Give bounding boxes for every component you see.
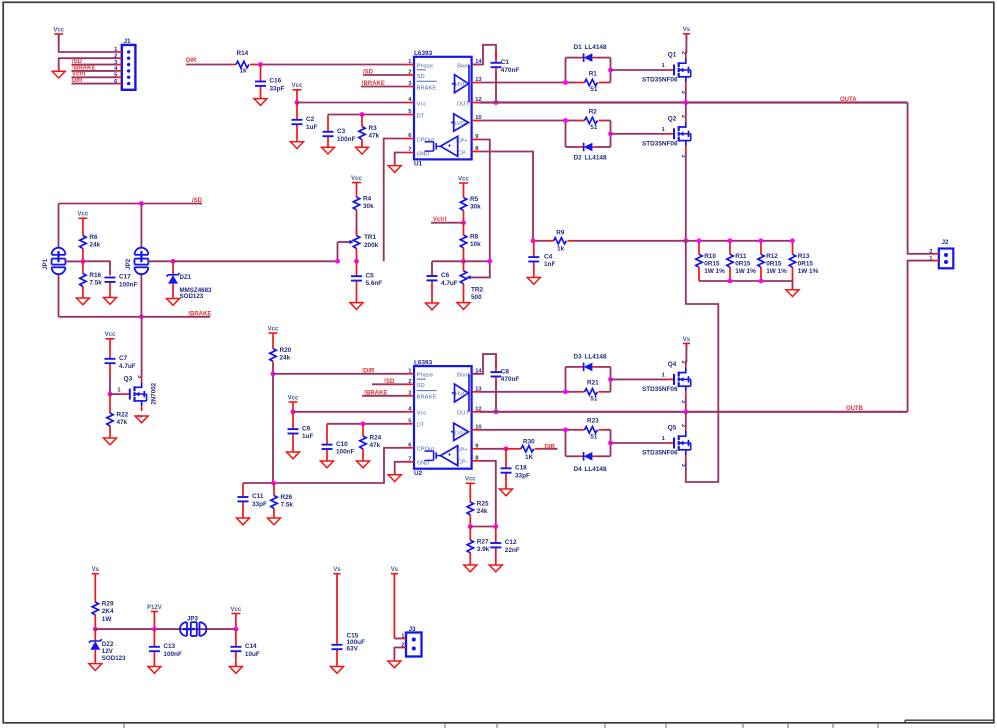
junction top rail xyxy=(728,238,733,243)
resistor R16 xyxy=(80,261,103,298)
svg-text:D2: D2 xyxy=(574,155,583,162)
wire R14 to U1 pin1 xyxy=(256,64,406,66)
ground U1 xyxy=(388,166,401,173)
svg-text:L6393: L6393 xyxy=(414,50,433,57)
wire sense bottom rail xyxy=(699,280,793,282)
wire D3 loop left xyxy=(565,367,567,392)
svg-text:Q3: Q3 xyxy=(124,376,133,383)
ground TR2 xyxy=(457,303,470,310)
ground C6 xyxy=(426,303,439,310)
jumper JP2 xyxy=(125,248,148,275)
junction osc node xyxy=(271,481,276,486)
trimmer TR2 xyxy=(460,261,483,302)
svg-text:TR1: TR1 xyxy=(364,234,377,241)
ground C12 xyxy=(489,565,502,572)
transistor Q4 xyxy=(642,360,691,404)
zener DZ2 xyxy=(89,629,126,664)
svg-text:DIR: DIR xyxy=(545,444,556,450)
capacitor C8 xyxy=(491,360,520,388)
wire 12V rail xyxy=(95,628,236,630)
diode D2 xyxy=(579,143,597,152)
diode D3 xyxy=(574,353,607,371)
wire to Q5 gate xyxy=(611,442,667,444)
wire from D3 xyxy=(597,366,611,368)
resistor R8 xyxy=(460,223,481,262)
wire Q3 drain to !BRAKE rail xyxy=(141,317,143,377)
svg-text:100nF: 100nF xyxy=(337,136,356,143)
svg-text:C9: C9 xyxy=(302,425,311,432)
ground J3 xyxy=(388,661,401,668)
ground J1 pin2 xyxy=(52,71,65,78)
resistor R29 xyxy=(92,601,114,630)
wire U2 LVG to R23/D4 xyxy=(480,429,566,431)
svg-text:R13: R13 xyxy=(798,253,810,260)
svg-text:30k: 30k xyxy=(470,204,481,211)
power Vcc xyxy=(458,176,469,197)
svg-text:2: 2 xyxy=(401,643,404,649)
svg-text:C18: C18 xyxy=(515,465,527,472)
svg-text:3.9k: 3.9k xyxy=(477,546,490,553)
power Vcc xyxy=(351,176,362,197)
svg-text:R1: R1 xyxy=(589,70,598,77)
resistor R24 xyxy=(360,424,382,461)
wire Vcc to J1 pin1 xyxy=(59,34,117,52)
wire from R21 xyxy=(606,391,611,393)
transistor Q3 xyxy=(117,375,157,418)
junction R3/DT xyxy=(360,112,365,117)
wire from D1 xyxy=(597,57,611,59)
power Vcc xyxy=(53,27,64,42)
wire to C17 xyxy=(83,261,110,275)
ground C17 xyxy=(104,298,117,305)
svg-text:2: 2 xyxy=(114,54,117,60)
junction Phase tap xyxy=(271,371,276,376)
ground DZ1 xyxy=(167,299,180,306)
wire Vs to Q4 drain xyxy=(685,343,687,362)
wire D4 loop left xyxy=(565,430,567,457)
resistor R10 0R15 xyxy=(696,241,725,281)
wire to D2 xyxy=(566,146,580,148)
wire to Q3 gate xyxy=(110,393,122,395)
wire JP2 bottom xyxy=(140,274,142,317)
capacitor C17 xyxy=(105,274,138,298)
junction DZ1 xyxy=(171,259,176,264)
svg-text:DIR: DIR xyxy=(186,58,197,64)
wire J3 pin2 to ground xyxy=(394,648,400,662)
ground R22 xyxy=(104,438,117,445)
svg-text:Vs: Vs xyxy=(92,567,100,573)
wire TR1 wiper down xyxy=(337,242,339,261)
svg-text:R26: R26 xyxy=(281,494,293,501)
wire Vctrl to J1 pin5 xyxy=(72,76,117,78)
junction OUTA/Q1/Q2 xyxy=(683,100,688,105)
wire DIR to R14 xyxy=(186,64,231,66)
svg-text:R9: R9 xyxy=(556,229,565,236)
svg-text:STD35NF06: STD35NF06 xyxy=(642,140,678,147)
wire Q4 source to OUTB xyxy=(685,396,687,411)
wire U1 LVG to R2/D2 xyxy=(480,120,566,122)
wire U1 Boot to C1 xyxy=(472,45,496,65)
svg-text:200k: 200k xyxy=(364,242,379,249)
svg-text:100nF: 100nF xyxy=(119,282,138,289)
junction Q2 gate xyxy=(608,131,613,136)
svg-text:OUTB: OUTB xyxy=(846,406,864,412)
junction R25/R27 xyxy=(468,524,473,529)
svg-text:2N7002: 2N7002 xyxy=(150,382,157,404)
resistor R2 xyxy=(578,108,606,131)
svg-text:R30: R30 xyxy=(523,439,535,446)
svg-text:C6: C6 xyxy=(441,272,450,279)
svg-text:24k: 24k xyxy=(477,508,488,515)
wire D1 loop right xyxy=(610,58,612,83)
resistor R13 0R15 xyxy=(789,241,818,281)
capacitor C9 xyxy=(288,412,314,452)
junction CP-/C12 xyxy=(493,524,498,529)
svg-text:C17: C17 xyxy=(119,274,131,281)
svg-text:STD35NF06: STD35NF06 xyxy=(642,450,678,457)
wire to D4 xyxy=(566,455,580,457)
resistor R11 0R15 xyxy=(727,241,756,281)
svg-text:51: 51 xyxy=(590,86,598,93)
wire JP1 bottom xyxy=(58,274,60,317)
resistor R22 xyxy=(107,394,129,438)
ground C16 xyxy=(254,99,267,106)
svg-text:R8: R8 xyxy=(470,234,479,241)
svg-text:R16: R16 xyxy=(89,272,101,279)
ground C2 xyxy=(291,142,304,149)
wire U2 HVG to R21/D3 xyxy=(480,391,566,393)
svg-text:DZ2: DZ2 xyxy=(102,641,114,648)
svg-text:2: 2 xyxy=(929,249,932,255)
junction LVG/R23/D4 xyxy=(563,427,568,432)
capacitor C12 xyxy=(490,527,520,566)
svg-text:22nF: 22nF xyxy=(505,547,520,554)
wire to D3 xyxy=(566,366,580,368)
svg-text:J2: J2 xyxy=(942,239,950,246)
power Vcc xyxy=(288,395,299,411)
svg-text:47k: 47k xyxy=(117,419,128,426)
wire timing node to TR1 xyxy=(173,260,338,262)
capacitor C13 xyxy=(149,629,182,666)
svg-text:1W 1%: 1W 1% xyxy=(798,268,819,275)
wire JP2 to DZ1 xyxy=(148,260,173,262)
junction Q1 gate xyxy=(608,68,613,73)
svg-text:C11: C11 xyxy=(252,493,264,500)
ground R24 xyxy=(357,461,370,468)
wire TR2 wiper to CP+ xyxy=(471,261,490,277)
svg-text:R12: R12 xyxy=(766,253,778,260)
capacitor C18 xyxy=(501,449,531,489)
svg-text:C13: C13 xyxy=(163,643,175,650)
ground C13 xyxy=(148,667,161,674)
svg-text:4.7uF: 4.7uF xyxy=(441,280,458,287)
svg-text:Q4: Q4 xyxy=(668,361,677,368)
junction CP+/C18 xyxy=(504,446,509,451)
border tick marks xyxy=(124,724,878,728)
capacitor C2 xyxy=(292,103,318,142)
svg-text:LL4148: LL4148 xyxy=(585,44,607,51)
wire JP2 top xyxy=(140,204,142,249)
junction bottom rail xyxy=(728,279,733,284)
jumper JP1 xyxy=(42,248,65,275)
capacitor C14 xyxy=(230,629,260,666)
wire to R1 xyxy=(566,82,578,84)
ground C18 xyxy=(500,489,513,496)
power Vcc xyxy=(231,607,242,629)
svg-text:JP2: JP2 xyxy=(125,258,132,270)
transistor Q1 xyxy=(642,51,691,95)
svg-text:1uF: 1uF xyxy=(302,433,313,440)
junction top rail xyxy=(697,238,702,243)
svg-text:TR2: TR2 xyxy=(471,287,484,294)
resistor R5 xyxy=(460,196,481,223)
svg-text:Vs: Vs xyxy=(683,337,691,343)
svg-text:7.5k: 7.5k xyxy=(281,502,294,509)
wire R4 to TR1 xyxy=(356,213,358,236)
svg-text:Vs: Vs xyxy=(391,567,399,573)
wire D3 loop right xyxy=(610,367,612,392)
wire C4 to R9 xyxy=(533,240,548,242)
svg-text:R14: R14 xyxy=(237,50,249,57)
wire J1 pin2 to ground xyxy=(59,58,117,71)
svg-text:R20: R20 xyxy=(280,347,292,354)
wire !BRAKE to U2 pin3 xyxy=(362,395,406,397)
svg-text:5.6nF: 5.6nF xyxy=(366,280,383,287)
connector J1 xyxy=(114,38,135,90)
wire OUTB to Q5 drain xyxy=(685,412,687,426)
junction TR1 wiper xyxy=(335,259,340,264)
junction OUTB/Q4/Q5 xyxy=(683,409,688,414)
wire U2 Boot to C8 xyxy=(472,354,496,374)
svg-text:4.7uF: 4.7uF xyxy=(119,363,136,370)
capacitor C3 xyxy=(323,115,356,148)
svg-text:1k: 1k xyxy=(557,245,565,252)
svg-text:33pF: 33pF xyxy=(270,86,285,93)
svg-text:Vcc: Vcc xyxy=(53,27,64,33)
svg-text:D4: D4 xyxy=(574,466,583,473)
wire C8 to OUTB xyxy=(495,381,497,412)
ground R27 xyxy=(464,565,477,572)
wire sense top rail xyxy=(686,240,793,242)
wire U1 CP- jog xyxy=(480,152,533,241)
diode D4 xyxy=(579,452,597,461)
zener DZ1 xyxy=(167,261,213,300)
resistor R12 0R15 xyxy=(758,241,787,281)
svg-text:2K4: 2K4 xyxy=(102,608,114,615)
svg-text:51: 51 xyxy=(590,395,598,402)
svg-text:R10: R10 xyxy=(704,253,716,260)
svg-text:C3: C3 xyxy=(337,128,346,135)
wire R20 to osc node xyxy=(272,364,274,483)
wire !BRAKE to U1 pin3 xyxy=(361,86,406,88)
ground C11 xyxy=(237,518,250,525)
svg-text:Vcc: Vcc xyxy=(231,607,242,613)
svg-text:STD35NF06: STD35NF06 xyxy=(642,386,678,393)
power Vs xyxy=(683,27,691,40)
wire to R2 xyxy=(566,120,578,122)
wire !BRAKE rail xyxy=(59,316,211,318)
junction C8/OUTB xyxy=(494,409,499,414)
svg-text:D1: D1 xyxy=(574,44,583,51)
svg-text:100nF: 100nF xyxy=(163,651,182,658)
wire OUTB rail xyxy=(480,411,908,413)
svg-text:24k: 24k xyxy=(280,355,291,362)
wire from D4 xyxy=(597,455,611,457)
svg-text:1nF: 1nF xyxy=(544,261,555,268)
resistor R6 xyxy=(80,234,101,261)
wire D1 loop left xyxy=(565,58,567,83)
wire to D1 xyxy=(566,57,580,59)
ground C10 xyxy=(321,461,334,468)
capacitor C4 xyxy=(528,241,555,278)
junction HVG/D3/R21 xyxy=(563,389,568,394)
op-amp driver IC U1 L6393 xyxy=(406,50,483,167)
svg-text:1W 1%: 1W 1% xyxy=(704,268,725,275)
svg-text:R5: R5 xyxy=(470,196,479,203)
ground C9 xyxy=(287,452,300,459)
svg-text:C10: C10 xyxy=(336,441,348,448)
ground Q3 source xyxy=(135,416,148,423)
junction Vctrl xyxy=(461,220,466,225)
ground U2 xyxy=(388,475,401,482)
svg-text:R6: R6 xyxy=(89,234,98,241)
svg-text:J3: J3 xyxy=(409,626,417,633)
wire D2 loop right xyxy=(610,121,612,148)
junction TR1 bottom xyxy=(354,259,359,264)
ground C3 xyxy=(322,147,335,154)
power Vcc xyxy=(292,83,303,102)
svg-text:R4: R4 xyxy=(363,196,372,203)
trimmer TR1 xyxy=(349,231,378,262)
svg-text:C12: C12 xyxy=(505,539,517,546)
ground R3 xyxy=(356,147,369,154)
wire JP1 to divider xyxy=(65,260,83,262)
wire OUTA to Q2 drain xyxy=(685,103,687,117)
svg-text:R21: R21 xyxy=(587,380,599,387)
wire from R23 xyxy=(606,429,611,431)
wire TR1 wiper xyxy=(338,241,350,243)
junction CP-/R9/C4 xyxy=(531,238,536,243)
junction R8/TR2/C6 xyxy=(461,259,466,264)
svg-text:Vcc: Vcc xyxy=(465,477,476,483)
svg-text:1K: 1K xyxy=(525,454,534,461)
svg-text:2: 2 xyxy=(680,51,686,54)
wire from R1 xyxy=(606,82,611,84)
wire D4 loop right xyxy=(610,430,612,457)
svg-text:Vcc: Vcc xyxy=(351,176,362,182)
wire U2 CP- jog xyxy=(480,461,496,527)
junction bottom rail xyxy=(759,279,764,284)
svg-text:0R15: 0R15 xyxy=(798,261,814,268)
transistor Q2 xyxy=(642,115,691,159)
resistor R27 xyxy=(467,527,490,566)
svg-text:C2: C2 xyxy=(306,116,315,123)
wire from R2 xyxy=(606,120,611,122)
svg-text:DZ1: DZ1 xyxy=(180,274,192,281)
wire Q5 source to sense node xyxy=(686,241,719,482)
wire OUTA rail xyxy=(480,101,908,103)
svg-text:Q5: Q5 xyxy=(668,425,677,432)
svg-text:1W: 1W xyxy=(102,616,113,623)
power Vcc xyxy=(465,477,476,502)
svg-text:OUTA: OUTA xyxy=(840,97,857,103)
svg-text:12V: 12V xyxy=(102,648,114,655)
wire from D2 xyxy=(597,146,611,148)
transistor Q5 xyxy=(642,424,691,468)
svg-text:470nF: 470nF xyxy=(501,376,520,383)
svg-text:1k: 1k xyxy=(240,68,248,75)
resistor R25 xyxy=(467,501,489,527)
svg-text:R24: R24 xyxy=(370,435,382,442)
ground C4 xyxy=(527,278,540,285)
svg-text:51: 51 xyxy=(590,124,598,131)
svg-text:33pF: 33pF xyxy=(252,501,267,508)
junction top rail xyxy=(790,238,795,243)
power Vs xyxy=(333,567,341,640)
wire C1 to OUT xyxy=(495,72,497,103)
wire Vcc to U2 pin4 xyxy=(293,411,406,413)
resistor R23 xyxy=(578,418,606,441)
svg-text:1W 1%: 1W 1% xyxy=(735,268,756,275)
wire Vctrl xyxy=(431,222,464,224)
svg-text:24k: 24k xyxy=(89,242,100,249)
wire DIR to J1 pin6 xyxy=(72,83,117,85)
junction Vcc/C9 xyxy=(291,409,296,414)
junction Vcc/C2 xyxy=(295,100,300,105)
wire /SD to U1 pin2 xyxy=(363,74,406,76)
junction R24/DT xyxy=(361,421,366,426)
svg-text:Q2: Q2 xyxy=(668,115,677,122)
power Vcc xyxy=(105,332,116,354)
wire to C6 xyxy=(431,261,433,274)
wire C7 to gate node xyxy=(109,375,111,394)
power Vs xyxy=(683,337,691,350)
wire D2 loop left xyxy=(565,121,567,148)
wire to Q1 gate xyxy=(611,69,667,71)
junction sense node xyxy=(683,238,688,243)
svg-text:Vcc: Vcc xyxy=(268,326,279,332)
svg-text:LL4148: LL4148 xyxy=(585,466,607,473)
capacitor C10 xyxy=(322,424,355,461)
svg-text:D3: D3 xyxy=(574,353,583,360)
junction P12V/C13 xyxy=(152,627,157,632)
ground C14 xyxy=(229,667,242,674)
wire to R23 xyxy=(566,429,578,431)
svg-text:SOD123: SOD123 xyxy=(102,655,126,662)
connector J2 xyxy=(929,239,953,268)
wire Q2 source to sense xyxy=(685,151,687,241)
svg-text:U2: U2 xyxy=(414,470,423,477)
ground C5 xyxy=(350,303,363,310)
svg-text:C1: C1 xyxy=(501,59,510,66)
wire C10/R24 to U2 pin5 DT xyxy=(327,423,406,425)
ground C15 xyxy=(331,667,344,674)
wire R8 node xyxy=(432,260,490,262)
ground R26 xyxy=(268,518,281,525)
svg-text:47k: 47k xyxy=(369,133,380,140)
svg-text:Vcc: Vcc xyxy=(78,212,89,218)
wire U2 GND pin xyxy=(395,462,406,475)
svg-text:C5: C5 xyxy=(366,272,375,279)
junction HVG/D1/R1 xyxy=(563,80,568,85)
svg-text:C16: C16 xyxy=(270,78,282,85)
svg-text:Vcc: Vcc xyxy=(288,395,299,401)
capacitor C11 xyxy=(238,483,268,518)
svg-text:30k: 30k xyxy=(363,203,374,210)
resistor R14 xyxy=(231,50,256,74)
svg-text:0R15: 0R15 xyxy=(704,261,720,268)
svg-text:470nF: 470nF xyxy=(501,67,520,74)
